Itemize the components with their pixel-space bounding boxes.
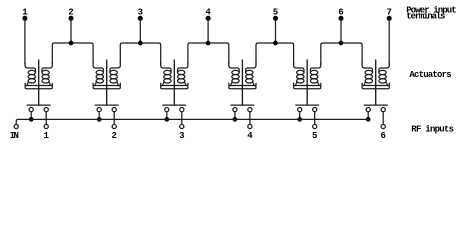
contact (bus side) of actuator A4 (233, 108, 237, 112)
wire terminal 4 down to T-bar (207, 18, 209, 43)
actuator A4 (relay coil) (229, 63, 256, 89)
wire T-bar from terminal 4 to actuators A3 and A4 (188, 43, 229, 64)
wire contact to IN bus (A6) (367, 112, 369, 120)
moving contact bar of actuator A5 (296, 104, 319, 106)
wire contact to IN bus (A3) (166, 112, 168, 120)
armature (plunger) of actuator A1 (38, 60, 40, 105)
svg-text:4: 4 (205, 7, 211, 17)
contact (output side) of actuator A6 (381, 108, 385, 112)
wire terminal 6 down to T-bar (340, 18, 342, 43)
wire terminal 3 down to T-bar (139, 18, 141, 43)
wire terminal 2 down to T-bar (70, 18, 72, 43)
svg-text:1: 1 (22, 7, 28, 17)
svg-text:3: 3 (138, 7, 143, 17)
wire contact to RF terminal 5 (314, 112, 316, 125)
RF input terminal 2 (112, 124, 116, 128)
contact (bus side) of actuator A6 (366, 108, 370, 112)
moving contact bar of actuator A6 (364, 104, 387, 106)
actuator A6 (relay coil) (362, 63, 389, 89)
junction on IN bus at A2 (97, 117, 102, 122)
svg-text:2: 2 (68, 7, 73, 17)
RF input terminal 3 (180, 124, 184, 128)
junction terminal 5 on T-bar (273, 41, 278, 46)
wire contact to RF terminal 6 (382, 112, 384, 125)
svg-text:Actuators: Actuators (409, 70, 451, 80)
junction terminal 6 on T-bar (339, 41, 344, 46)
wire contact to IN bus (A2) (98, 112, 100, 120)
junction on IN bus at A1 (29, 117, 34, 122)
svg-text:RF inputs: RF inputs (411, 124, 454, 134)
junction terminal 3 on T-bar (138, 41, 143, 46)
wire contact to RF terminal 2 (113, 112, 115, 125)
power input terminal 6 (dot) (338, 16, 343, 21)
svg-text:terminals: terminals (406, 12, 445, 22)
svg-text:4: 4 (247, 131, 253, 141)
junction on IN bus at A3 (164, 117, 169, 122)
junction on IN bus at A4 (233, 117, 238, 122)
svg-text:5: 5 (273, 7, 278, 17)
junction on IN bus at A5 (297, 117, 302, 122)
contact (bus side) of actuator A1 (29, 108, 33, 112)
armature (plunger) of actuator A4 (241, 60, 243, 105)
svg-text:IN: IN (10, 131, 19, 141)
wire T-bar from terminal 2 to actuators A1 and A2 (52, 43, 93, 64)
power input terminal 1 (dot) (22, 16, 27, 21)
wire contact to RF terminal 1 (45, 112, 47, 125)
actuator A2 (relay coil) (93, 63, 120, 89)
wire T-bar from terminal 5 to actuators A4 and A5 (256, 43, 294, 64)
power input terminal 2 (dot) (68, 16, 73, 21)
contact (output side) of actuator A2 (112, 108, 116, 112)
svg-text:1: 1 (43, 131, 49, 141)
contact (bus side) of actuator A3 (165, 108, 169, 112)
wire terminal 1 down to actuator A1 left winding (24, 18, 26, 64)
wire terminal 5 down to T-bar (275, 18, 277, 43)
power input terminal 5 (dot) (273, 16, 278, 21)
wire contact to RF terminal 3 (181, 112, 183, 125)
svg-text:6: 6 (380, 131, 385, 141)
svg-text:5: 5 (312, 131, 317, 141)
armature (plunger) of actuator A6 (375, 60, 377, 105)
armature (plunger) of actuator A3 (173, 60, 175, 105)
svg-text:2: 2 (111, 131, 116, 141)
wire T-bar from terminal 3 to actuators A2 and A3 (120, 43, 160, 64)
moving contact bar of actuator A2 (95, 104, 118, 106)
actuator A1 (relay coil) (25, 63, 52, 89)
contact (bus side) of actuator A2 (97, 108, 101, 112)
armature (plunger) of actuator A5 (306, 60, 308, 105)
svg-text:3: 3 (179, 131, 184, 141)
junction terminal 2 on T-bar (69, 41, 74, 46)
armature (plunger) of actuator A2 (106, 60, 108, 105)
power input terminal 3 (dot) (138, 16, 143, 21)
wire contact to IN bus (A1) (30, 112, 32, 120)
contact (bus side) of actuator A5 (298, 108, 302, 112)
RF input terminal 5 (313, 124, 317, 128)
contact (output side) of actuator A1 (44, 108, 48, 112)
wire contact to IN bus (A5) (299, 112, 301, 120)
moving contact bar of actuator A1 (27, 104, 50, 106)
RF input terminal 4 (248, 124, 252, 128)
RF IN terminal (14, 124, 18, 128)
moving contact bar of actuator A3 (163, 104, 186, 106)
junction on IN bus at A6 (366, 117, 371, 122)
contact (output side) of actuator A3 (180, 108, 184, 112)
contact (output side) of actuator A4 (248, 108, 252, 112)
contact (output side) of actuator A5 (313, 108, 317, 112)
wire contact to RF terminal 4 (249, 112, 251, 125)
actuator A3 (relay coil) (161, 63, 188, 89)
RF input terminal 1 (44, 124, 48, 128)
power input terminal 4 (dot) (206, 16, 211, 21)
power input terminal 7 (dot) (387, 16, 392, 21)
wire contact to IN bus (A4) (234, 112, 236, 120)
svg-text:6: 6 (338, 7, 343, 17)
moving contact bar of actuator A4 (231, 104, 254, 106)
wire RF IN bus (16, 119, 368, 124)
junction terminal 4 on T-bar (206, 41, 211, 46)
wire terminal 7 down to actuator A6 right winding (388, 18, 390, 64)
RF input terminal 6 (381, 124, 385, 128)
svg-text:7: 7 (386, 7, 391, 17)
actuator A5 (relay coil) (294, 63, 321, 89)
wire T-bar from terminal 6 to actuators A5 and A6 (321, 43, 362, 64)
